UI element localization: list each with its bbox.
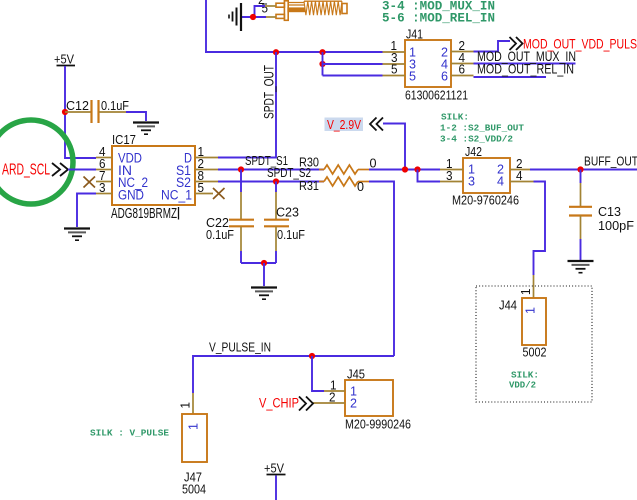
svg-text:4: 4 bbox=[497, 174, 504, 189]
ground IC17 bbox=[64, 229, 90, 241]
wire BUFF_OUT bbox=[530, 169, 637, 171]
svg-text:5-6 :MOD_REL_IN: 5-6 :MOD_REL_IN bbox=[382, 12, 495, 26]
pin stub SMA pin5 bbox=[266, 16, 276, 18]
SMA coax connector X? top bbox=[276, 1, 347, 21]
svg-text:R30: R30 bbox=[299, 155, 319, 170]
svg-text:5: 5 bbox=[409, 69, 416, 84]
junction C12 tap bbox=[62, 109, 68, 115]
svg-text:J44: J44 bbox=[499, 298, 517, 313]
wire R31 out bbox=[369, 182, 394, 357]
svg-text:R31: R31 bbox=[299, 178, 319, 193]
svg-text:3-4 :S2_VDD/2: 3-4 :S2_VDD/2 bbox=[440, 134, 513, 145]
svg-text:2: 2 bbox=[329, 391, 336, 405]
svg-text:1: 1 bbox=[179, 402, 193, 409]
wire C12 to ground bbox=[126, 112, 146, 121]
wire SMA pin5 bbox=[241, 16, 266, 18]
junction (SMA gnd) bbox=[250, 14, 256, 20]
pin stub SMA pin2 bbox=[265, 5, 276, 7]
resistor R30 bbox=[299, 155, 377, 175]
svg-text:1: 1 bbox=[519, 288, 533, 295]
J42 pin 1 bbox=[440, 157, 463, 171]
wire branch to J42 pin3 bbox=[418, 170, 441, 182]
svg-text:5: 5 bbox=[198, 181, 205, 195]
IC17 pin 4 VDD bbox=[96, 145, 112, 159]
junction V_2.9V tap bbox=[402, 166, 408, 172]
J42 pin 3 bbox=[440, 169, 463, 183]
svg-text:4: 4 bbox=[516, 169, 523, 183]
pin stub J47 pin1 bbox=[192, 393, 194, 414]
wire C22/C23 common to ground bbox=[241, 262, 276, 264]
svg-text:J45: J45 bbox=[347, 367, 365, 382]
svg-text:IC17: IC17 bbox=[112, 132, 136, 147]
IC17 pin 8 S2 bbox=[195, 169, 218, 183]
connector J42 bbox=[452, 144, 519, 208]
ground C12 bbox=[133, 123, 159, 135]
svg-text:J42: J42 bbox=[465, 144, 482, 159]
net label V_2.9V (highlighted) bbox=[325, 117, 364, 132]
capacitor C22 bbox=[206, 170, 254, 264]
J41 pin 6 bbox=[451, 63, 474, 77]
junction J41 pin3 tee bbox=[319, 61, 325, 67]
svg-text:3: 3 bbox=[99, 181, 106, 195]
svg-text:BUFF_OUT: BUFF_OUT bbox=[584, 154, 637, 169]
svg-text:NC_1: NC_1 bbox=[161, 187, 192, 202]
wire MOD_OUT_MUX_IN bbox=[474, 63, 576, 65]
svg-text:6: 6 bbox=[441, 69, 448, 84]
wire V_2.9V tap bbox=[383, 124, 405, 170]
IC17 pin 6 IN bbox=[96, 157, 112, 171]
svg-text:GND: GND bbox=[118, 187, 144, 202]
svg-text:61300621121: 61300621121 bbox=[405, 88, 468, 103]
svg-text:6: 6 bbox=[459, 63, 466, 77]
svg-text:C23: C23 bbox=[276, 205, 299, 220]
wire SPDT_OUT vertical to IC17 pin D bbox=[218, 52, 276, 158]
frame dotted box bbox=[476, 286, 592, 402]
wire to J41 pin3 bbox=[323, 63, 383, 65]
pin stub J44 pin1 bbox=[533, 275, 535, 298]
wire GND pin to ground bbox=[77, 194, 96, 228]
J41 pin 2 bbox=[451, 39, 474, 53]
svg-text:0.1uF: 0.1uF bbox=[206, 227, 234, 242]
ground C13 bbox=[568, 261, 594, 273]
svg-text:3: 3 bbox=[468, 174, 475, 189]
IC17 pin 5 NC_1 bbox=[195, 181, 225, 199]
capacitor C13 bbox=[569, 170, 634, 261]
svg-text:SILK:: SILK: bbox=[441, 112, 469, 123]
wire SPDT_OUT net: vertical from SMA pin1 bbox=[205, 0, 207, 52]
chassis ground (SMA) bbox=[229, 3, 241, 31]
svg-text:C12: C12 bbox=[66, 98, 89, 113]
wire R30 out to J42 bbox=[369, 169, 440, 171]
svg-text:ARD_SCL: ARD_SCL bbox=[2, 162, 50, 179]
svg-text:0.1uF: 0.1uF bbox=[101, 98, 129, 113]
power +5V (top) bbox=[54, 52, 75, 67]
IC17 pin 7 NC_2 bbox=[84, 169, 113, 188]
J42 pin 2 bbox=[510, 157, 530, 171]
svg-text:1: 1 bbox=[186, 423, 201, 430]
J41 pin 3 bbox=[383, 51, 406, 65]
J41 pin 4 bbox=[451, 51, 474, 65]
svg-text:C13: C13 bbox=[598, 204, 621, 219]
chevron V_2.9V bbox=[370, 118, 383, 131]
chevron ARD_SCL bbox=[52, 163, 68, 176]
junction J41 riser top bbox=[319, 49, 325, 55]
wire ARD_SCL to IC17 pin IN bbox=[68, 169, 96, 171]
svg-text:100pF: 100pF bbox=[598, 218, 634, 233]
resistor R31 bbox=[299, 177, 369, 194]
wire SPDT_OUT net: main horizontal bbox=[205, 51, 383, 53]
wire MOD_OUT_REL_IN bbox=[474, 76, 547, 78]
highlight circle (green) bbox=[0, 120, 73, 204]
svg-text:0: 0 bbox=[357, 179, 364, 194]
svg-text:5002: 5002 bbox=[523, 345, 547, 360]
J42 pin 4 bbox=[510, 169, 534, 183]
svg-text:+5V: +5V bbox=[54, 52, 74, 67]
svg-text:V_2.9V: V_2.9V bbox=[327, 117, 361, 132]
J45 pin 2 bbox=[313, 391, 345, 405]
svg-text:VDD/2: VDD/2 bbox=[509, 380, 536, 391]
IC17 pin 3 GND bbox=[96, 181, 112, 195]
IC17 pin 1 D bbox=[195, 145, 218, 159]
IC17 pin 2 S1 bbox=[195, 157, 218, 171]
junction BUFF_OUT/C13 bbox=[577, 166, 583, 172]
svg-text:SILK : V_PULSE: SILK : V_PULSE bbox=[90, 428, 169, 439]
J45 pin 1 bbox=[324, 379, 345, 393]
connector J41 bbox=[405, 27, 468, 103]
ground C22C23 bbox=[251, 288, 277, 300]
wire +5V to VDD bbox=[65, 66, 96, 158]
svg-text:V_CHIP: V_CHIP bbox=[259, 396, 299, 411]
junction V_PULSE_IN / J45 bbox=[309, 353, 315, 359]
svg-text:5: 5 bbox=[391, 63, 398, 77]
wire J42 pin4 to J44 bbox=[534, 182, 546, 276]
svg-text:1-2 :S2_BUF_OUT: 1-2 :S2_BUF_OUT bbox=[440, 123, 524, 134]
svg-text:2: 2 bbox=[350, 396, 357, 411]
wire to J41 pin5 bbox=[323, 75, 383, 77]
junction SPDT_OUT column bbox=[273, 49, 279, 55]
svg-text:SPDT_OUT: SPDT_OUT bbox=[262, 65, 277, 119]
wire SPDT_S2 net bbox=[218, 181, 324, 183]
J41 pin 1 bbox=[383, 39, 406, 53]
svg-text:ADG819BRMZ: ADG819BRMZ bbox=[111, 206, 177, 222]
capacitor C12 bbox=[65, 98, 129, 123]
junction S2/C23 bbox=[273, 178, 279, 184]
svg-text:V_PULSE_IN: V_PULSE_IN bbox=[209, 340, 271, 355]
wire to J45 pin1 bbox=[312, 356, 324, 391]
connector J47 bbox=[182, 414, 207, 497]
wire SPDT_S1 net bbox=[218, 169, 324, 171]
connector J45 bbox=[345, 367, 411, 432]
connector J44 bbox=[499, 298, 547, 360]
chevron MOD_OUT_VDD_PULS bbox=[510, 37, 523, 50]
svg-text:1: 1 bbox=[523, 307, 538, 314]
svg-text:M20-9990246: M20-9990246 bbox=[345, 417, 411, 432]
wire SMA pin2 riser bbox=[255, 6, 266, 17]
junction S1/C22 bbox=[238, 166, 244, 172]
J41 pin 5 bbox=[383, 63, 406, 77]
wire J41 riser bbox=[322, 52, 324, 76]
capacitor C23 bbox=[264, 182, 305, 264]
svg-text:M20-9760246: M20-9760246 bbox=[452, 193, 519, 208]
svg-text:J41: J41 bbox=[406, 27, 423, 42]
svg-text:+5V: +5V bbox=[264, 461, 284, 476]
chevron V_CHIP bbox=[299, 397, 313, 411]
svg-text:3: 3 bbox=[446, 169, 453, 183]
svg-text:MOD_OUT_REL_IN: MOD_OUT_REL_IN bbox=[477, 62, 574, 77]
junction J42 pin3 branch bbox=[414, 166, 420, 172]
wire MOD_OUT_VDD_PULS bbox=[474, 41, 511, 52]
wire V_PULSE_IN bbox=[193, 356, 394, 393]
svg-text:0.1uF: 0.1uF bbox=[277, 227, 305, 242]
wire +5V bottom bbox=[275, 476, 277, 500]
svg-text:0: 0 bbox=[370, 156, 377, 171]
power +5V (bottom) bbox=[264, 461, 286, 476]
svg-text:5: 5 bbox=[262, 2, 269, 16]
op IC17 ADG819 bbox=[111, 132, 195, 222]
svg-text:5004: 5004 bbox=[182, 482, 206, 497]
